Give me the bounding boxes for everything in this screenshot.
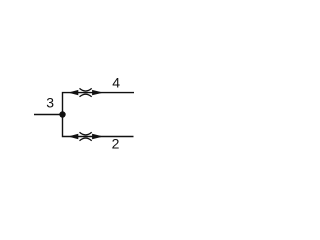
wire: top branch, vertical bus, bottom branch (63, 93, 135, 137)
wire: pin-3 stub (34, 114, 63, 116)
svg-text:2: 2 (112, 135, 120, 151)
node junction dot (59, 111, 65, 117)
surge arrester gap GDT upper electrode pair (68, 88, 103, 96)
svg-text:3: 3 (46, 94, 54, 110)
surge arrester gap GDT lower electrode pair (68, 132, 103, 140)
svg-text:4: 4 (112, 75, 120, 91)
